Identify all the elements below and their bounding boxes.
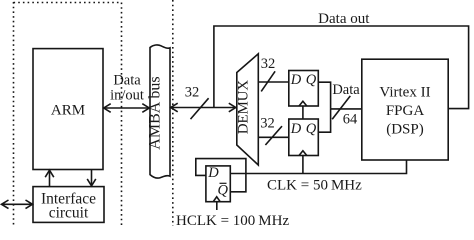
svg-text:D: D <box>290 72 302 88</box>
wire AMBA bus to DEMUX bidirectional arrow <box>171 103 236 112</box>
svg-text:Data: Data <box>113 73 141 89</box>
label toggle FF Qbar <box>218 183 229 199</box>
wire interface-to-ARM up arrow <box>45 170 54 186</box>
AMBA bus symbol <box>150 45 170 178</box>
svg-text:Q: Q <box>218 183 229 199</box>
svg-text:Virtex II: Virtex II <box>379 85 430 101</box>
bus width slash (64) <box>332 96 350 119</box>
dashed boundary right vertical <box>172 0 174 226</box>
wire CLK 50MHz to FPGA <box>230 160 406 174</box>
dashed boundary middle vertical <box>121 3 123 227</box>
bus width slash (DEMUX-FF1) <box>261 71 275 91</box>
wire FF2 clock feed <box>302 156 304 174</box>
wire Data out branch <box>214 26 469 109</box>
svg-text:Q: Q <box>306 121 317 137</box>
wire ARM-to-interface down arrow <box>87 170 96 186</box>
svg-text:Q: Q <box>306 72 317 88</box>
DEMUX trapezoid <box>237 54 258 165</box>
wire FF1 clock feed <box>302 106 304 119</box>
wire FF1 output <box>318 82 330 109</box>
svg-text:32: 32 <box>261 56 276 72</box>
svg-text:D: D <box>290 121 302 137</box>
svg-text:32: 32 <box>260 116 275 132</box>
wire Data 64 to FPGA <box>331 108 362 110</box>
svg-text:Data: Data <box>332 82 360 98</box>
svg-text:D: D <box>207 165 219 181</box>
wire feedback loop Qbar to D <box>196 159 246 192</box>
FF1 clock caret <box>299 101 307 106</box>
svg-text:AMBA bus: AMBA bus <box>147 76 164 149</box>
svg-text:ARM: ARM <box>51 103 85 119</box>
ARM box <box>33 49 103 170</box>
dashed boundary top horizontal <box>14 2 122 4</box>
bus width slash (AMBA-DEMUX) <box>191 98 209 119</box>
svg-text:64: 64 <box>343 112 358 128</box>
svg-text:Data out: Data out <box>318 11 370 27</box>
FF2 clock caret <box>299 151 307 156</box>
svg-text:FPGA: FPGA <box>386 103 425 119</box>
svg-text:32: 32 <box>185 84 200 100</box>
interface circuit box <box>33 187 104 223</box>
flip-flop FF1 box <box>289 71 319 107</box>
toggle flip-flop box <box>206 166 230 202</box>
flip-flop FF2 box <box>289 119 319 156</box>
FPGA box <box>362 59 448 160</box>
dashed boundary left vertical <box>13 2 15 226</box>
svg-text:(DSP): (DSP) <box>386 122 424 138</box>
svg-text:in/out: in/out <box>110 88 144 104</box>
svg-text:DEMUX: DEMUX <box>236 80 252 135</box>
wire interface external bidirectional arrow <box>2 200 33 209</box>
bus width slash (DEMUX-FF2) <box>265 126 282 145</box>
wire DEMUX to FF1 <box>258 81 289 83</box>
svg-text:circuit: circuit <box>49 205 89 222</box>
svg-text:HCLK = 100 MHz: HCLK = 100 MHz <box>176 213 289 226</box>
wire HCLK input <box>216 202 218 210</box>
wire DEMUX to FF2 <box>258 136 289 138</box>
wire Data in/out bidirectional arrow <box>104 104 150 113</box>
wire FF2 output <box>318 109 330 132</box>
svg-text:CLK = 50 MHz: CLK = 50 MHz <box>267 178 362 194</box>
toggle FF clock caret <box>213 197 220 202</box>
